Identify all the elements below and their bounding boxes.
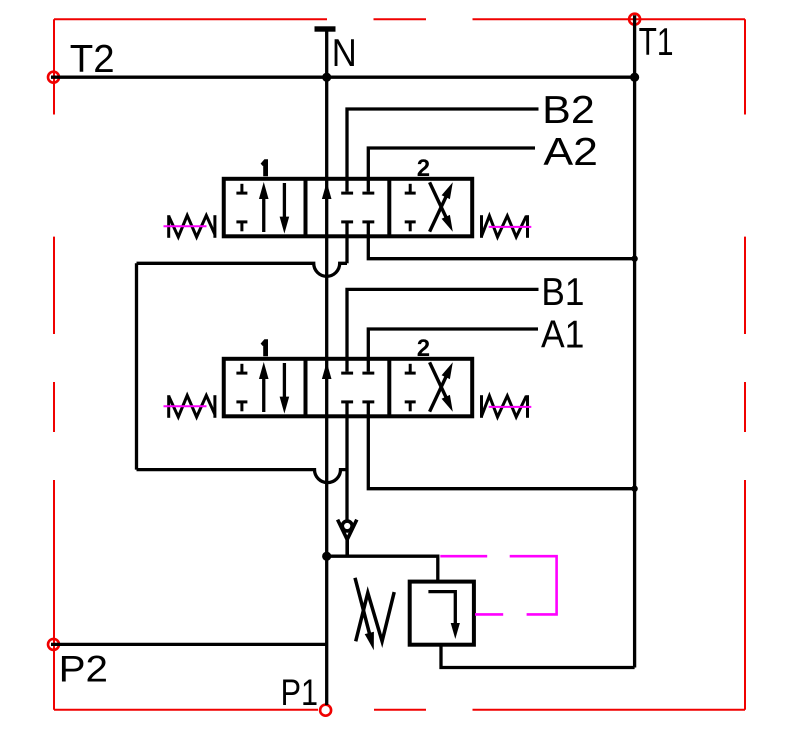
valve DCV2 body [224,179,472,237]
wire relief drain to T1 [441,645,635,668]
wire A2 carry-over to T1 [368,222,634,259]
wire pump line to relief valve [327,556,438,581]
DCV2 position-2 blocked ports [405,184,416,232]
DCV1 left return spring [169,395,215,418]
DCV1 position-2 blocked ports [405,364,416,412]
DCV1 left detent line [164,405,207,407]
DCV1 neutral blocked work ports [341,373,374,402]
wire B2 feed [347,109,539,192]
wire T1 trunk [633,15,636,667]
wire N plug cap [315,26,336,31]
valve DCV1 body [224,359,472,417]
svg-text:P1: P1 [281,672,318,713]
DCV1 position-1 up arrow [262,373,265,412]
DCV2 position-2 crossed arrows [430,190,449,231]
svg-text:A2: A2 [543,131,598,174]
port T1 [629,14,640,25]
port P2 [48,639,59,650]
DCV1 position-1 blocked ports [236,364,247,412]
node A1-carry/T1 junction [631,486,637,492]
DCV2 neutral passage arrow [322,182,332,199]
wire A1 feed [368,329,538,372]
valve DCV2 (upper section) [164,155,532,238]
svg-text:A1: A1 [541,314,584,357]
DCV2 left detent line [164,225,207,227]
svg-text:B1: B1 [541,271,584,314]
svg-text:N: N [332,32,357,75]
wire A1 carry-over to T1 [368,402,634,489]
node N-T2 junction [322,73,331,82]
svg-text:B2: B2 [542,89,595,132]
DCV2 neutral blocked work ports [341,193,374,222]
wire B1 carry-over [345,402,348,520]
DCV2 position-1 down arrow [283,183,286,223]
DCV2 right return spring [482,215,528,238]
wire N trunk [325,29,328,705]
node P junction [322,552,331,561]
valve DCV1 (lower section) [164,335,532,418]
relief valve RV1 pilot line [440,556,556,614]
check valve CV1 [338,520,357,557]
wire A2 feed [368,148,535,192]
relief valve RV1 body [410,582,474,645]
relief valve RV1 internal flow arrow [428,592,455,624]
DCV1 position-2 crossed arrows [430,370,449,411]
wire T2 rail [51,76,635,79]
wire P2 line [51,643,327,646]
wire lower hop link [137,470,348,483]
node A2-carry/T1 junction [631,256,637,262]
relief valve RV1 adjustment arrow [355,578,371,638]
relief valve RV1 adjustable spring [356,592,395,641]
DCV1 neutral passage arrow [322,362,332,379]
DCV2 left return spring [169,215,215,238]
svg-text:P2: P2 [59,648,108,689]
label position 1 of DCV1 [261,339,268,356]
svg-text:T2: T2 [70,38,115,81]
DCV2 position-1 up arrow [262,193,265,232]
DCV2 right detent line [489,226,532,228]
port T2 [48,72,59,83]
svg-text:T1: T1 [639,21,674,64]
DCV2 position-1 blocked ports [236,184,247,232]
svg-text:2: 2 [417,335,430,362]
wire B1 feed [347,289,539,371]
wire upper hop link [137,263,348,276]
port P1 [320,705,331,716]
svg-text:2: 2 [417,155,430,182]
wire B2 carry-over [345,222,348,263]
label position 1 of DCV2 [261,159,268,176]
node T1-T2 junction [630,73,639,82]
DCV1 right detent line [489,406,532,408]
wire left loop [135,263,138,469]
DCV1 position-1 down arrow [283,363,286,403]
DCV1 right return spring [482,395,528,418]
